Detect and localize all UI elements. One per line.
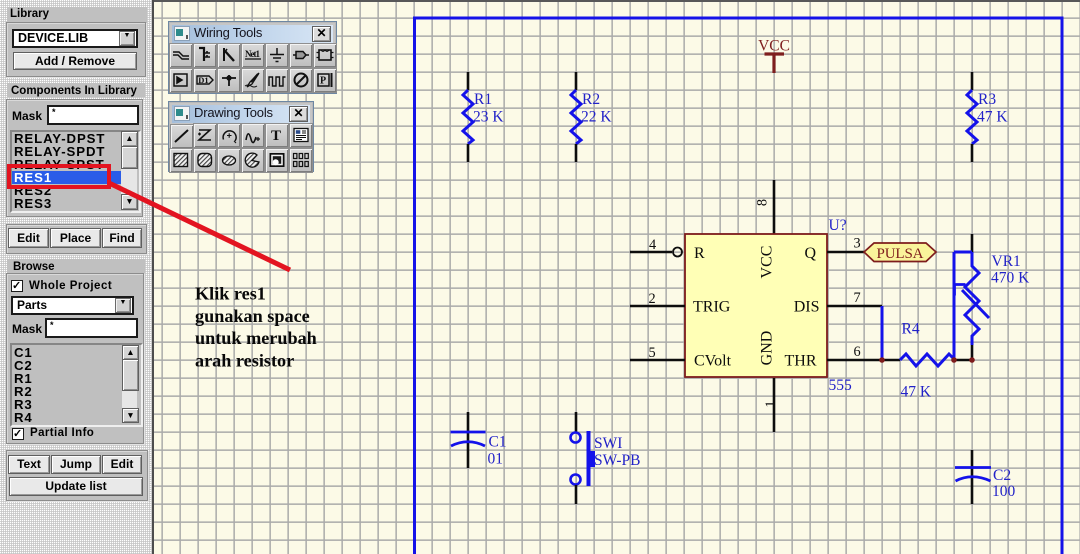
wiring row1 buttons (169, 43, 193, 68)
potentiometer VR1 (954, 234, 1030, 360)
combo drop button (119, 31, 135, 46)
VR1 wiper top link (954, 251, 972, 254)
drawing row1 buttons (170, 124, 194, 149)
VCC bar (765, 52, 785, 55)
Text button (8, 455, 50, 474)
svg-text:SW-PB: SW-PB (594, 452, 641, 469)
dark top edge of design window (152, 0, 1080, 2)
svg-text:P: P (320, 75, 326, 86)
pin 2 wire TRIG (630, 291, 685, 307)
Jump button (51, 455, 101, 474)
browse groupbox (6, 273, 144, 444)
pin 5 wire CVolt (630, 345, 685, 361)
pin 6 wire THR (827, 344, 900, 360)
svg-text:PULSA: PULSA (877, 246, 924, 262)
wiring row2 buttons (169, 68, 193, 93)
svg-text:01: 01 (488, 451, 504, 468)
sheet border (415, 18, 1063, 554)
Edit button 2 (102, 455, 142, 474)
VR1 wiper down wire (953, 252, 956, 360)
svg-text:gunakan space: gunakan space (195, 306, 310, 326)
Library section plate (7, 7, 147, 76)
components list scrollbar (121, 132, 137, 206)
svg-text:TRIG: TRIG (693, 299, 731, 316)
svg-text:22 K: 22 K (581, 109, 612, 126)
SWI bottom contact circle (571, 475, 581, 485)
Mask label 2 (12, 322, 42, 336)
Mask label (12, 109, 42, 123)
R3 top pin wire (971, 72, 974, 90)
svg-text:C2: C2 (993, 467, 1011, 484)
svg-text:THR: THR (785, 352, 817, 369)
VR1 zigzag body (965, 252, 979, 345)
R3 bottom pin wire (971, 144, 974, 162)
components groupbox (6, 99, 143, 217)
Partial Info checkbox (12, 428, 24, 440)
capacitor C1 (451, 412, 507, 468)
selected item RES1 (12, 171, 121, 184)
svg-text:Klik res1: Klik res1 (195, 284, 266, 304)
bottom buttons plate (6, 450, 148, 501)
net label PULSA (864, 243, 936, 262)
svg-text:DIS: DIS (794, 299, 820, 316)
wire pin8 to VCC area (773, 180, 776, 234)
R1 bottom pin wire (467, 144, 470, 162)
svg-text:VCC: VCC (759, 246, 776, 279)
Update list button (9, 477, 143, 496)
svg-text:2: 2 (649, 291, 656, 307)
mask field 2 (45, 318, 138, 338)
left library panel (0, 0, 154, 554)
Add / Remove button (13, 52, 137, 70)
power port VCC (758, 38, 790, 74)
svg-text:R3: R3 (978, 91, 996, 108)
components listbox (10, 130, 141, 213)
svg-text:4: 4 (649, 237, 656, 253)
resistor R1 (463, 72, 504, 162)
Edit button (8, 228, 49, 248)
R1 top pin wire (467, 72, 470, 90)
svg-text:470 K: 470 K (991, 270, 1030, 287)
svg-text:R2: R2 (582, 91, 600, 108)
VR1 arrow diagonal (962, 290, 989, 318)
VR1 bottom pin (971, 345, 974, 360)
pin 7 wire DIS (827, 290, 882, 306)
svg-text:T: T (271, 128, 281, 144)
svg-text:5: 5 (649, 345, 656, 361)
Find button (102, 228, 142, 248)
drawing row2 buttons (169, 148, 193, 173)
VR1 top pin (971, 234, 974, 252)
svg-text:Net1: Net1 (245, 49, 261, 59)
wire between nodes under R4 right (954, 359, 972, 362)
svg-text:GND: GND (759, 331, 776, 366)
Components In Library label plate (7, 83, 145, 97)
svg-text:6: 6 (854, 344, 861, 360)
R1 zigzag body (463, 90, 473, 144)
SWI actuator bump (587, 451, 596, 467)
VR1 arrow head (955, 285, 966, 296)
C2 curved plate (956, 477, 991, 481)
C2 pin wire (971, 450, 974, 504)
svg-text:23 K: 23 K (473, 109, 504, 126)
Edit/Place/Find button plate (6, 224, 147, 254)
SWI top pin (575, 412, 578, 432)
R3 zigzag body (967, 90, 977, 144)
SWI actuator bar (587, 431, 591, 486)
svg-text:Q: Q (804, 245, 816, 262)
svg-text:8: 8 (755, 199, 771, 206)
red annotation arrow line (109, 183, 290, 270)
junction node C (969, 357, 975, 363)
resistor R4 (horizontal) (900, 321, 955, 401)
svg-text:SWI: SWI (594, 435, 622, 452)
svg-text:untuk merubah: untuk merubah (195, 328, 317, 348)
Library groupbox (6, 22, 146, 77)
svg-text:3: 3 (854, 236, 861, 252)
VCC stem (772, 54, 775, 73)
C1 top plate (451, 431, 486, 434)
instruction text: Klik res1 ... (195, 284, 317, 371)
wire DIS down to node (881, 306, 884, 358)
svg-text:arah resistor: arah resistor (195, 350, 294, 370)
pin 1 wire GND (763, 378, 779, 432)
switch SWI SW-PB (571, 412, 641, 504)
svg-text:U?: U? (829, 217, 847, 234)
Place button (50, 228, 101, 248)
svg-text:1: 1 (763, 400, 779, 407)
svg-text:R4: R4 (902, 321, 920, 338)
pin 4 wire with inversion circle (630, 237, 682, 257)
Browse label plate (7, 259, 145, 273)
browse listbox (10, 343, 143, 427)
C1 curved plate (451, 442, 485, 446)
library combo DEVICE.LIB (12, 29, 138, 48)
svg-text:47 K: 47 K (977, 109, 1008, 126)
browse list scrollbar (122, 345, 137, 421)
capacitor C2 (955, 450, 1016, 504)
SWI top contact circle (571, 433, 581, 443)
svg-text:555: 555 (829, 377, 853, 394)
Whole Project checkbox (11, 280, 23, 292)
Drawing Tools toolbar window (168, 101, 314, 172)
Wiring Tools toolbar window (168, 21, 337, 94)
Parts combo (11, 296, 134, 315)
svg-text:D1: D1 (198, 75, 208, 85)
mask field (47, 105, 139, 125)
C1 pin wire (467, 412, 470, 468)
junction node B (951, 357, 957, 363)
svg-text:7: 7 (854, 290, 861, 306)
svg-text:C1: C1 (489, 434, 507, 451)
svg-text:VR1: VR1 (992, 253, 1021, 270)
R2 top pin wire (575, 72, 578, 90)
red highlight rectangle around RES1 (9, 166, 109, 187)
list items (12, 132, 121, 145)
junction node A (879, 357, 885, 363)
C2 top plate (955, 466, 991, 469)
SWI bottom pin (575, 485, 578, 504)
resistor R2 (571, 72, 612, 162)
R2 zigzag body (571, 90, 581, 144)
op-amp U? 555 timer body (685, 217, 852, 394)
svg-text:100: 100 (992, 483, 1016, 500)
svg-text:CVolt: CVolt (694, 352, 732, 369)
R2 bottom pin wire (575, 144, 578, 162)
svg-text:VCC: VCC (758, 38, 790, 55)
svg-text:R: R (694, 245, 705, 262)
resistor R3 (967, 72, 1008, 162)
pin 3 wire Q (827, 236, 864, 253)
svg-text:47 K: 47 K (901, 384, 932, 401)
svg-text:R1: R1 (474, 91, 492, 108)
Library label (10, 8, 49, 20)
